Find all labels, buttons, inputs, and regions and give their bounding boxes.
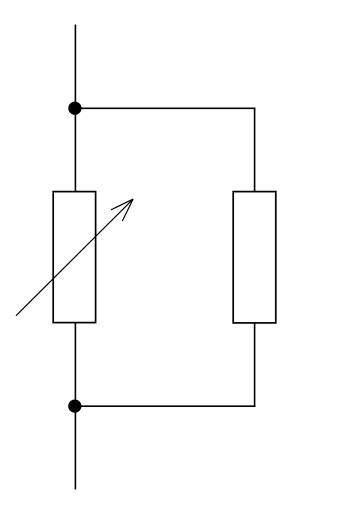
variable resistor R1 (rheostat, left branch)	[16, 192, 133, 323]
wire top horizontal (node A to right branch)	[75, 107, 256, 109]
wire bottom lead	[74, 406, 76, 489]
wire right branch lower vertical	[254, 323, 256, 407]
wire right branch upper vertical	[254, 108, 256, 193]
wire bottom horizontal (right branch to node B)	[75, 405, 256, 407]
node B (bottom junction dot)	[68, 400, 81, 413]
wire junction A to R1 top	[74, 108, 76, 192]
node A (top junction dot)	[68, 102, 81, 115]
wire top lead	[74, 25, 76, 108]
wire R1 bottom to node B	[74, 323, 76, 407]
resistor R2 (right branch)	[233, 192, 276, 323]
